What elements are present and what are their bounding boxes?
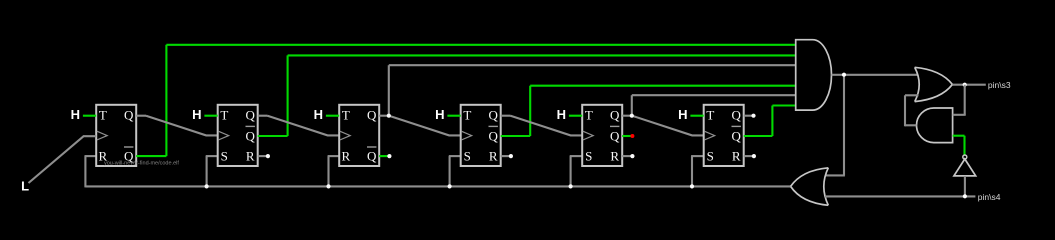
svg-text:Q: Q bbox=[246, 129, 256, 144]
svg-text:Q: Q bbox=[124, 107, 134, 122]
svg-text:R: R bbox=[610, 148, 619, 163]
svg-text:R: R bbox=[732, 148, 741, 163]
svg-text:H: H bbox=[192, 107, 201, 122]
svg-text:Q: Q bbox=[246, 107, 256, 122]
svg-text:R: R bbox=[489, 148, 498, 163]
svg-text:H: H bbox=[435, 107, 444, 122]
svg-text:Q: Q bbox=[610, 107, 620, 122]
svg-text:T: T bbox=[706, 107, 714, 122]
svg-text:H: H bbox=[557, 107, 566, 122]
svg-text:R: R bbox=[246, 148, 255, 163]
svg-text:you-will-never-find-me/code.el: you-will-never-find-me/code.elf bbox=[104, 160, 179, 166]
svg-text:Q: Q bbox=[489, 107, 499, 122]
svg-text:Q: Q bbox=[732, 129, 742, 144]
svg-text:H: H bbox=[678, 107, 687, 122]
svg-text:T: T bbox=[99, 107, 107, 122]
svg-text:H: H bbox=[314, 107, 323, 122]
svg-text:H: H bbox=[71, 107, 80, 122]
svg-text:S: S bbox=[221, 148, 228, 163]
svg-text:Q: Q bbox=[732, 107, 742, 122]
svg-text:T: T bbox=[585, 107, 593, 122]
svg-text:Q: Q bbox=[367, 148, 377, 163]
svg-text:Q: Q bbox=[489, 129, 499, 144]
svg-text:S: S bbox=[707, 148, 714, 163]
svg-text:R: R bbox=[341, 148, 350, 163]
svg-text:T: T bbox=[220, 107, 228, 122]
svg-text:pin\s3: pin\s3 bbox=[988, 80, 1011, 90]
svg-text:Q: Q bbox=[610, 129, 620, 144]
svg-text:T: T bbox=[342, 107, 350, 122]
svg-text:S: S bbox=[585, 148, 592, 163]
svg-text:S: S bbox=[464, 148, 471, 163]
svg-text:L: L bbox=[21, 178, 29, 193]
svg-text:pin\s4: pin\s4 bbox=[978, 192, 1001, 202]
svg-text:Q: Q bbox=[367, 107, 377, 122]
svg-text:T: T bbox=[463, 107, 471, 122]
